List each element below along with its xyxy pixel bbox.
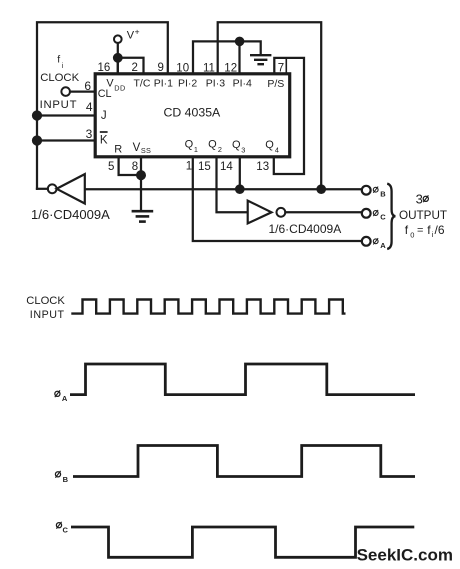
svg-text:8: 8	[132, 161, 138, 173]
svg-text:f: f	[57, 54, 60, 66]
wire pin 14 Q3 down	[239, 158, 241, 190]
wire pin 11 to vertical feedback	[218, 22, 322, 189]
svg-text:INPUT: INPUT	[40, 99, 78, 111]
svg-text:C: C	[63, 526, 69, 535]
svg-text:OUTPUT: OUTPUT	[399, 209, 447, 222]
svg-text:B: B	[380, 189, 386, 198]
op-amp U2 inverter 1/6 CD4009A middle	[248, 201, 272, 224]
terminal phi A	[362, 237, 371, 246]
terminal clock input	[61, 87, 70, 96]
waveform phi A	[70, 364, 415, 395]
svg-text:SS: SS	[141, 146, 151, 155]
label phi B	[373, 187, 378, 193]
svg-text:PI·1: PI·1	[154, 77, 173, 89]
svg-text:12: 12	[224, 62, 237, 74]
wire pin 12	[238, 41, 240, 73]
svg-text:6: 6	[84, 79, 91, 93]
label phi C waveform	[56, 522, 61, 529]
wire pin 7 P/S to pin 13 Q4 loop	[274, 58, 304, 174]
pin 16 wire	[117, 58, 119, 73]
op-amp U1 inverter 1/6 CD4009A left	[57, 174, 85, 203]
svg-text:4: 4	[86, 100, 93, 114]
svg-text:V: V	[133, 142, 141, 154]
svg-text:Q: Q	[232, 139, 241, 151]
wire K input	[37, 139, 94, 141]
svg-text:PI·2: PI·2	[178, 78, 197, 90]
ground Vss	[133, 211, 152, 221]
wire pin 15 Q2 to inverter input	[217, 158, 248, 213]
wire left bus with top wire to pin 9 T/C	[37, 22, 168, 189]
svg-text:15: 15	[198, 161, 211, 173]
svg-text:1/6·CD4009A: 1/6·CD4009A	[269, 222, 342, 236]
node junction V+	[114, 54, 122, 62]
node junction K	[33, 137, 41, 145]
svg-text:R: R	[114, 143, 122, 155]
svg-text:CLOCK: CLOCK	[26, 295, 65, 307]
svg-text:1: 1	[186, 161, 192, 173]
wire pin 10 pin 12 to ground	[193, 41, 261, 73]
node junction pin 8	[137, 171, 145, 179]
node junction Q3 phiB	[236, 186, 243, 193]
node junction pin 12	[236, 38, 243, 45]
brace outputs	[387, 184, 395, 249]
svg-text:A: A	[380, 241, 386, 250]
svg-text:14: 14	[220, 161, 233, 173]
svg-text:3: 3	[416, 192, 423, 207]
svg-text:5: 5	[108, 161, 114, 173]
waveform phi C	[71, 527, 414, 557]
ground top	[251, 55, 270, 64]
wire pin 1 Q1 to phi A output	[193, 158, 362, 242]
IC U3 CD4035A box	[95, 74, 290, 157]
svg-text:/6: /6	[435, 223, 445, 237]
svg-text:1: 1	[194, 145, 198, 154]
svg-text:A: A	[62, 394, 68, 403]
waveform phi B	[73, 446, 415, 477]
svg-text:0: 0	[410, 230, 414, 239]
label phi A waveform	[55, 390, 60, 397]
svg-text:PI·4: PI·4	[233, 78, 252, 90]
svg-text:+: +	[135, 27, 140, 37]
svg-text:3: 3	[86, 127, 93, 141]
terminal phi B	[362, 186, 371, 195]
wire V+ branch to pin 2	[118, 58, 144, 73]
svg-text:P/S: P/S	[267, 78, 284, 90]
svg-text:Q: Q	[265, 139, 274, 151]
wire V+ to pin 16	[117, 43, 119, 73]
svg-text:V: V	[127, 30, 135, 42]
svg-text:13: 13	[256, 161, 269, 173]
svg-text:CD 4035A: CD 4035A	[164, 106, 222, 120]
pin tick 7	[285, 60, 287, 73]
svg-text:K: K	[100, 134, 108, 146]
svg-text:2: 2	[218, 145, 222, 154]
svg-text:1/6·CD4009A: 1/6·CD4009A	[31, 207, 110, 222]
svg-text:3: 3	[241, 145, 245, 154]
label phi C	[373, 210, 378, 216]
node junction J	[33, 112, 41, 120]
wire inverter U1 output to bus	[37, 188, 48, 190]
svg-text:PI·3: PI·3	[206, 78, 225, 90]
svg-text:Q: Q	[185, 139, 194, 151]
node junction feedback phiB	[318, 186, 325, 193]
svg-text:=: =	[417, 224, 423, 236]
wire inverter U2 output to phi C	[285, 211, 361, 213]
label phi A	[373, 238, 378, 244]
svg-text:SeekIC.com: SeekIC.com	[357, 545, 453, 564]
waveform clock	[71, 300, 345, 314]
svg-text:DD: DD	[114, 84, 125, 93]
terminal V+	[114, 35, 122, 43]
wire pin 5 to pin 8	[119, 158, 141, 176]
svg-text:CL: CL	[98, 88, 112, 100]
svg-text:T/C: T/C	[134, 77, 151, 89]
svg-text:CLOCK: CLOCK	[40, 72, 79, 84]
svg-text:B: B	[63, 475, 69, 484]
svg-text:16: 16	[98, 62, 111, 74]
svg-text:10: 10	[176, 62, 189, 74]
svg-text:9: 9	[158, 62, 164, 74]
wire pin 8 to ground	[140, 158, 142, 211]
svg-text:C: C	[380, 213, 386, 222]
wire J input	[37, 114, 94, 116]
svg-text:Q: Q	[208, 139, 217, 151]
wire phi B line	[85, 188, 362, 190]
terminal phi C	[362, 209, 371, 218]
label phi B waveform	[55, 471, 60, 478]
svg-text:7: 7	[278, 62, 284, 74]
wire clock input to pin 6	[70, 90, 96, 92]
svg-text:INPUT: INPUT	[30, 309, 65, 321]
svg-text:2: 2	[132, 62, 138, 74]
svg-text:11: 11	[203, 62, 215, 74]
svg-text:4: 4	[275, 145, 279, 154]
svg-text:J: J	[101, 110, 107, 122]
